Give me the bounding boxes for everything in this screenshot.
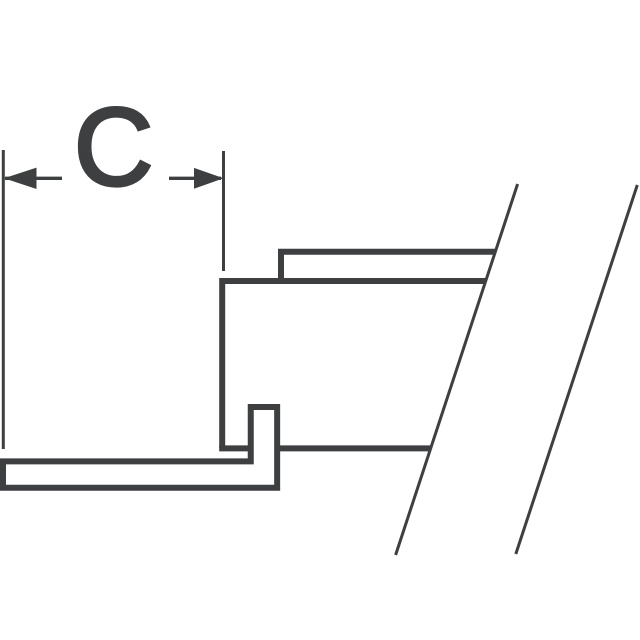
svg-text:C: C	[74, 86, 153, 209]
